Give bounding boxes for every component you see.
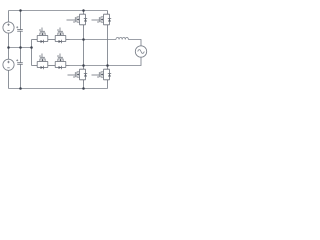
capacitor C1: [16, 26, 23, 31]
junction dot node B / grid return: [106, 64, 109, 67]
junction dot node M branch: [30, 46, 33, 49]
wire T8 source lead: [107, 84, 109, 89]
wire row2 left: [32, 65, 34, 67]
wire cap1 bottom lead: [20, 31, 22, 47]
wire top rail: [9, 10, 108, 12]
wire source2 bottom lead: [8, 70, 10, 88]
wire leg A mid: [83, 29, 85, 66]
junction dot node M / C1-C2: [19, 46, 22, 49]
transistor S5: [34, 54, 52, 70]
junction dot top rail / S1 collector: [82, 9, 85, 12]
junction dot bottom rail / C2: [19, 87, 22, 90]
junction dot bottom rail / S7 emitter: [82, 87, 85, 90]
voltage source V1: [3, 22, 14, 33]
junction dot leg A / row 2: [82, 64, 85, 67]
voltage source V2: [3, 59, 14, 70]
junction dot node M / V1-V2: [7, 46, 10, 49]
wire row2 right: [70, 65, 108, 67]
junction dot output node A: [82, 38, 85, 41]
transistor S8: [92, 66, 112, 84]
wire leg B mid: [107, 29, 109, 66]
inductor L: [116, 37, 128, 39]
wire T7 source lead: [83, 84, 85, 89]
wire grid return: [108, 57, 142, 65]
wire node M vertical: [31, 40, 33, 66]
transistor S3: [34, 28, 52, 44]
transistor S1: [67, 11, 88, 29]
transistor S2: [92, 11, 112, 29]
AC grid source: [135, 46, 146, 57]
wire bottom rail: [9, 88, 108, 90]
wire source2 top lead: [8, 48, 10, 60]
wire source1 bottom lead: [8, 33, 10, 47]
capacitor C2: [16, 59, 23, 64]
wire row1 left: [32, 39, 34, 41]
transistor S4: [52, 28, 70, 44]
junction dot top rail / C1: [19, 9, 22, 12]
transistor S7: [68, 66, 88, 84]
wire source1 top lead: [8, 11, 10, 22]
wire cap2 bottom lead: [20, 64, 22, 88]
wire cap1 top lead: [20, 11, 22, 30]
transistor S6: [52, 54, 70, 70]
wire row1 right to inductor: [70, 39, 117, 41]
wire mid node: [9, 47, 32, 49]
wire output to grid corner: [128, 40, 141, 46]
wire cap2 top lead: [20, 48, 22, 63]
